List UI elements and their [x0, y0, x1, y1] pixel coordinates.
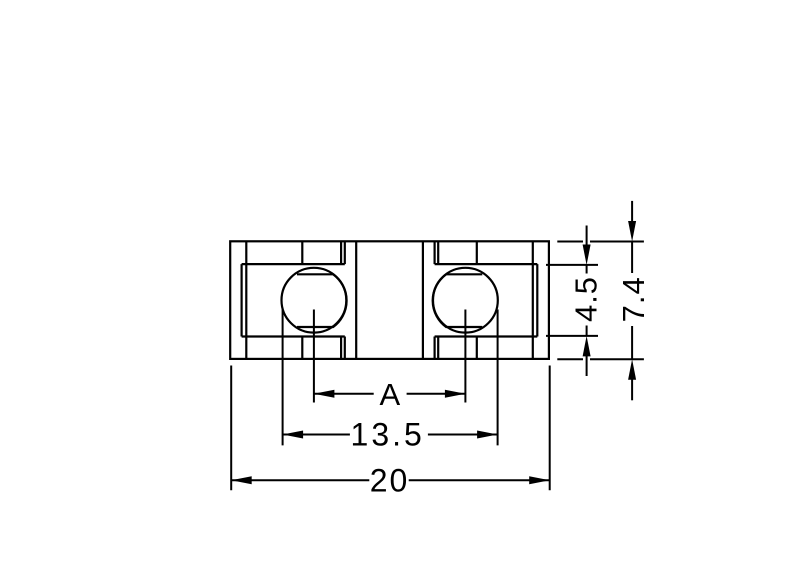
dimension line 13.5 left segment [283, 434, 350, 436]
svg-text:7.4: 7.4 [616, 276, 651, 322]
arrowhead 4.5 bottom [583, 336, 591, 357]
arrowhead A right [445, 390, 466, 398]
wall right inner full-height [532, 241, 534, 359]
extension line 4.5 top [546, 264, 598, 266]
arrow tail 7.4 top [631, 201, 633, 223]
arrowhead 20 right [529, 476, 550, 484]
hole circle left [282, 268, 347, 333]
svg-text:13.5: 13.5 [351, 416, 425, 452]
arrowhead 4.5 top [583, 245, 591, 266]
bottom stub pair 341 [340, 337, 342, 359]
svg-text:4.5: 4.5 [569, 276, 604, 322]
dimension line 13.5 right segment [428, 434, 498, 436]
top stub pair 344 [344, 241, 346, 264]
shelf line bottom-left [242, 335, 345, 337]
top stub pair 438 [437, 241, 439, 264]
wall left inner full-height [245, 241, 247, 359]
arrow tail 4.5 bottom [586, 355, 588, 377]
dimension stub 4.5 bottom [586, 326, 588, 336]
clamp cage right [433, 274, 483, 327]
extension line 4.5 bottom [546, 335, 598, 337]
dimension line 20 right segment [409, 479, 550, 481]
shelf line top-left [242, 263, 345, 265]
clamp wall left [241, 264, 243, 336]
wall center-right full-height [422, 241, 424, 359]
shelf line top-right [435, 263, 538, 265]
svg-text:20: 20 [370, 462, 410, 498]
leader line hole-left outer [282, 310, 284, 446]
bottom stub pair 434 [434, 337, 436, 359]
leader line hole-right center [464, 310, 466, 403]
arrowhead 20 left [231, 476, 252, 484]
top stub 302 [301, 241, 303, 264]
clamp wall right [536, 264, 538, 336]
bottom stub pair 344 [344, 337, 346, 359]
dimension line A left segment [314, 393, 374, 395]
dimension stub 7.4 top [631, 242, 633, 274]
arrow tail 4.5 top [586, 226, 588, 248]
extension line 7.4 top left part [557, 241, 583, 243]
extension line 7.4 bottom right part [590, 358, 644, 360]
svg-text:A: A [379, 377, 400, 412]
arrowhead 13.5 right [477, 431, 498, 439]
arrowhead 7.4 bottom [628, 359, 636, 380]
hole circle right [433, 268, 498, 333]
top stub pair 434 [434, 241, 436, 264]
clamp cage left [297, 274, 347, 327]
arrow tail 7.4 bottom [631, 378, 633, 400]
leader line hole-left center [313, 310, 315, 403]
bottom stub 476 [476, 337, 478, 359]
body outline [230, 241, 549, 359]
dimension stub 4.5 top [586, 265, 588, 274]
extension line 20 right [549, 366, 551, 491]
extension line 20 left [230, 366, 232, 491]
leader line hole-right outer [497, 310, 499, 446]
dimension line 20 left segment [231, 479, 369, 481]
arrowhead 13.5 left [283, 431, 304, 439]
top stub 476 [476, 241, 478, 264]
wall center-left full-height [355, 241, 357, 359]
shelf line bottom-right [435, 335, 538, 337]
dimension stub 7.4 bottom [631, 326, 633, 359]
arrowhead 7.4 top [628, 221, 636, 242]
dimension line A right segment [407, 393, 466, 395]
bottom stub pair 438 [437, 337, 439, 359]
arrowhead A left [314, 390, 335, 398]
extension line 7.4 bottom left part [557, 358, 583, 360]
bottom stub 302 [301, 337, 303, 359]
extension line 7.4 top right part [590, 241, 644, 243]
top stub pair 341 [340, 241, 342, 264]
